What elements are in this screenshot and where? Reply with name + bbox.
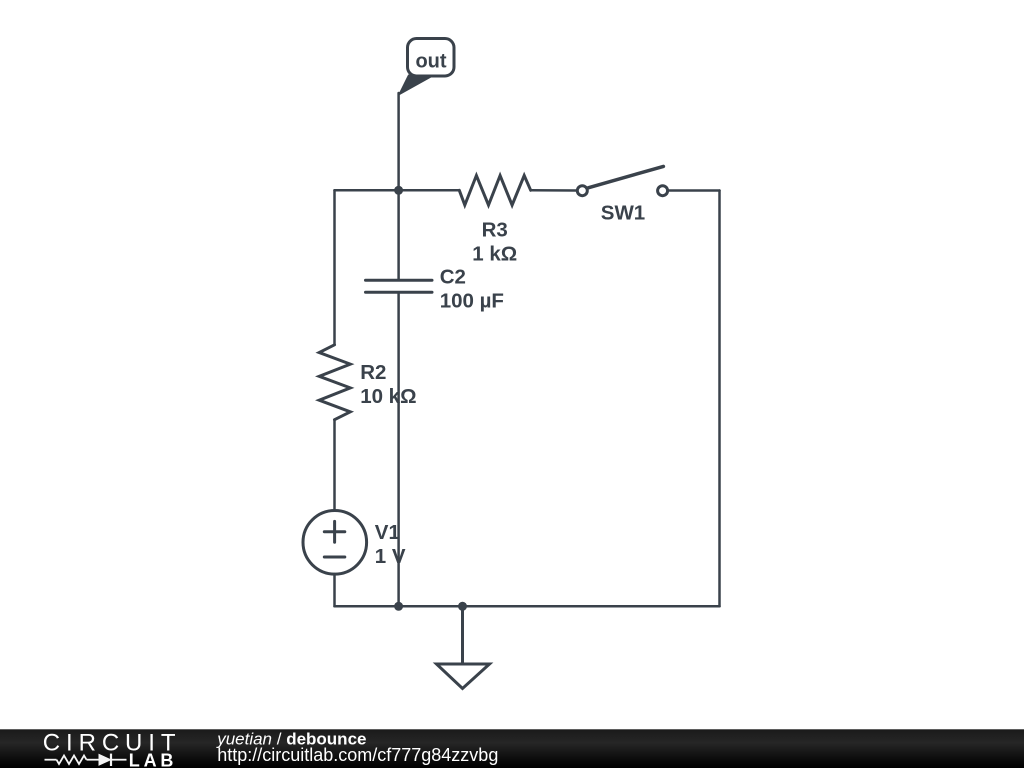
svg-text:http://circuitlab.com/cf777g84: http://circuitlab.com/cf777g84zzvbg	[217, 745, 498, 765]
svg-text:SW1: SW1	[601, 202, 645, 225]
voltage source V1	[303, 511, 367, 575]
svg-text:10 kΩ: 10 kΩ	[360, 385, 416, 408]
node at middle/bottom-rail junction	[394, 602, 403, 611]
wire middle vertical lower (C2 bottom plate to bottom rail)	[397, 292, 400, 606]
svg-text:1 kΩ: 1 kΩ	[472, 242, 517, 265]
wire out-flag to node	[397, 93, 400, 190]
wire R3 to SW1	[531, 189, 576, 192]
resistor R3	[459, 176, 530, 206]
node at out/top-rail junction	[394, 186, 403, 195]
wire bottom horizontal	[335, 605, 720, 608]
capacitor C2	[366, 280, 433, 292]
wire V1 to bottom rail	[333, 574, 336, 606]
node at ground junction	[458, 602, 467, 611]
svg-text:100 µF: 100 µF	[440, 290, 504, 313]
wire SW1 to right rail	[669, 189, 720, 192]
wire right rail vertical	[718, 191, 721, 607]
wire middle vertical upper (node to C2 top plate)	[397, 190, 400, 280]
wire top horizontal left segment	[335, 189, 460, 192]
svg-text:V1: V1	[375, 521, 400, 544]
resistor R2	[319, 345, 350, 420]
switch SW1	[577, 166, 667, 195]
svg-text:C2: C2	[440, 266, 466, 289]
svg-text:R2: R2	[360, 361, 386, 384]
logo diode	[99, 755, 109, 765]
svg-text:1 V: 1 V	[375, 545, 406, 568]
logo schematic wire	[45, 754, 127, 766]
ground	[437, 606, 490, 688]
svg-text:LAB: LAB	[129, 750, 177, 768]
wire left rail upper	[333, 190, 336, 344]
logo resistor	[57, 756, 87, 765]
net label "out" flag	[399, 39, 454, 96]
svg-text:R3: R3	[482, 219, 508, 242]
svg-text:out: out	[415, 50, 446, 72]
footer bar	[0, 729, 1024, 768]
wire R2 to V1	[333, 420, 336, 511]
